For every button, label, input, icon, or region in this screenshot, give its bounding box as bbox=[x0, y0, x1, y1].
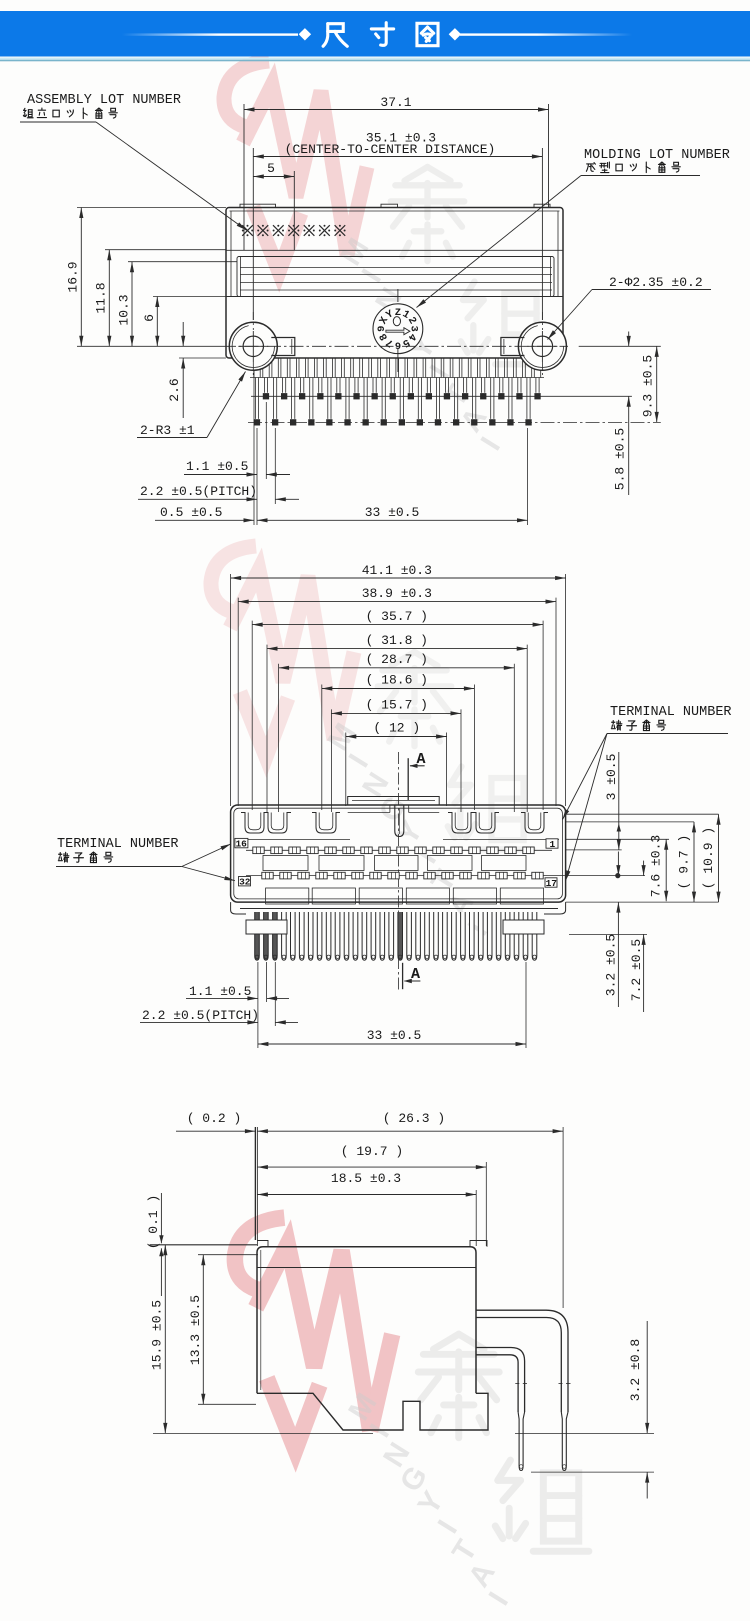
centerline horizontal (dash-dot) bbox=[222, 345, 568, 347]
svg-text:17: 17 bbox=[546, 878, 558, 889]
lower terminal row line extended w/ dot bbox=[246, 875, 645, 877]
mid cavity rects bbox=[263, 856, 308, 871]
body outline front bbox=[231, 805, 566, 902]
3.2 dim bbox=[153, 1432, 373, 1434]
centerline vertical d2 bbox=[398, 752, 400, 992]
pad row lines bbox=[251, 395, 632, 397]
left wall + flange line bbox=[254, 1127, 256, 1240]
svg-text:( 15.7 ): ( 15.7 ) bbox=[366, 698, 428, 713]
svg-text:1.1 ±0.5: 1.1 ±0.5 bbox=[186, 459, 248, 474]
svg-text:18.5 ±0.3: 18.5 ±0.3 bbox=[331, 1171, 401, 1186]
dim (10.9) bbox=[718, 814, 720, 902]
upper pin bbox=[476, 1310, 568, 1412]
svg-text:33 ±0.5: 33 ±0.5 bbox=[367, 1028, 422, 1043]
svg-text:5: 5 bbox=[267, 161, 275, 176]
lower pin bbox=[476, 1348, 525, 1413]
svg-text:( 31.8 ): ( 31.8 ) bbox=[366, 633, 428, 648]
svg-text:37.1: 37.1 bbox=[380, 95, 411, 110]
header blue banner bbox=[0, 11, 750, 57]
left vertical dims 16.9/11.8/10.3/6 bbox=[77, 207, 226, 209]
svg-text:2.6: 2.6 bbox=[167, 378, 182, 401]
short pins bbox=[264, 378, 267, 393]
svg-text:41.1 ±0.3: 41.1 ±0.3 bbox=[362, 563, 432, 578]
svg-text:7.2 ±0.5: 7.2 ±0.5 bbox=[629, 939, 644, 1001]
svg-text:( 18.6 ): ( 18.6 ) bbox=[366, 673, 428, 688]
slider band bbox=[226, 249, 563, 251]
assembly lot marks bbox=[242, 225, 253, 236]
terminal rows bbox=[246, 849, 552, 851]
svg-text:3.2 ±0.5: 3.2 ±0.5 bbox=[604, 934, 619, 996]
svg-text:2.2 ±0.5(PITCH): 2.2 ±0.5(PITCH) bbox=[142, 1008, 259, 1023]
right side dims d2 bbox=[566, 813, 719, 815]
bottom dims d2 bbox=[257, 962, 259, 1048]
dim (9.7) bbox=[693, 822, 695, 902]
top tabs bbox=[240, 204, 276, 207]
svg-text:3.2 ±0.8: 3.2 ±0.8 bbox=[628, 1339, 643, 1401]
svg-text:( 0.2 ): ( 0.2 ) bbox=[187, 1111, 242, 1126]
svg-text:16.9: 16.9 bbox=[66, 261, 81, 292]
dim 15.9 bbox=[164, 1245, 166, 1434]
bottom flange/feet bbox=[240, 908, 558, 910]
svg-text:15.9 ±0.5: 15.9 ±0.5 bbox=[150, 1300, 165, 1370]
svg-text:TERMINAL NUMBER: TERMINAL NUMBER bbox=[610, 705, 732, 720]
ear right bbox=[501, 338, 525, 356]
section mark A top bbox=[407, 758, 409, 800]
pins comb (side view) bbox=[254, 358, 260, 378]
header title 尺寸图 bbox=[323, 23, 438, 47]
long pins bbox=[255, 378, 258, 419]
svg-text:ASSEMBLY LOT NUMBER: ASSEMBLY LOT NUMBER bbox=[27, 93, 181, 108]
bottom profile bbox=[257, 1393, 488, 1430]
svg-text:( 19.7 ): ( 19.7 ) bbox=[341, 1144, 403, 1159]
svg-text:2.2 ±0.5(PITCH): 2.2 ±0.5(PITCH) bbox=[140, 484, 257, 499]
dim 9.3 bbox=[656, 346, 658, 422]
terminal number labels bbox=[235, 838, 248, 847]
dim 2.6 bbox=[182, 322, 184, 346]
svg-text:1: 1 bbox=[549, 839, 555, 850]
date wheel bbox=[373, 304, 423, 354]
svg-text:2-Φ2.35 ±0.2: 2-Φ2.35 ±0.2 bbox=[609, 275, 703, 290]
svg-text:13.3 ±0.5: 13.3 ±0.5 bbox=[188, 1295, 203, 1365]
svg-text:38.9 ±0.3: 38.9 ±0.3 bbox=[362, 586, 432, 601]
pins front view bbox=[255, 912, 260, 960]
body outline side bbox=[257, 1247, 476, 1394]
svg-text:7.6 ±0.3: 7.6 ±0.3 bbox=[649, 835, 664, 897]
svg-text:( 10.9 ): ( 10.9 ) bbox=[701, 827, 716, 889]
slot ledge line bbox=[237, 839, 350, 841]
svg-text:1.1 ±0.5: 1.1 ±0.5 bbox=[189, 984, 251, 999]
center raised block + key bbox=[348, 797, 440, 806]
svg-text:A: A bbox=[411, 966, 420, 983]
svg-text:( 26.3 ): ( 26.3 ) bbox=[383, 1111, 445, 1126]
bottom dims of drawing 1 bbox=[253, 371, 255, 525]
svg-text:9.3 ±0.5: 9.3 ±0.5 bbox=[641, 355, 656, 417]
svg-text:( 35.7 ): ( 35.7 ) bbox=[366, 609, 428, 624]
svg-text:( 28.7 ): ( 28.7 ) bbox=[366, 652, 428, 667]
dim (0.1) bbox=[160, 1193, 162, 1243]
svg-text:10.3: 10.3 bbox=[117, 294, 132, 325]
svg-text:11.8: 11.8 bbox=[94, 282, 109, 313]
svg-text:6: 6 bbox=[142, 314, 157, 322]
svg-text:( 9.7 ): ( 9.7 ) bbox=[677, 835, 692, 890]
top slots bbox=[241, 813, 268, 834]
section mark A bottom bbox=[402, 963, 404, 989]
svg-text:MOLDING LOT NUMBER: MOLDING LOT NUMBER bbox=[584, 148, 730, 163]
svg-text:(CENTER-TO-CENTER DISTANCE): (CENTER-TO-CENTER DISTANCE) bbox=[285, 142, 496, 157]
dim 3.2 +-0.5 bbox=[617, 852, 619, 876]
svg-text:32: 32 bbox=[239, 877, 251, 888]
dim 7.6 bbox=[665, 839, 667, 901]
watermark red logo + gray text (3 instances) bbox=[224, 61, 367, 272]
dim 5.8 bbox=[628, 332, 630, 347]
dim 3 +-0.5 bbox=[618, 752, 620, 850]
svg-text:A: A bbox=[416, 751, 425, 768]
svg-text:( 0.1 ): ( 0.1 ) bbox=[146, 1195, 161, 1250]
svg-text:( 12 ): ( 12 ) bbox=[373, 721, 420, 736]
dim 7.2 +-0.5 bbox=[643, 861, 645, 876]
svg-text:3 ±0.5: 3 ±0.5 bbox=[604, 754, 619, 801]
svg-text:16: 16 bbox=[235, 838, 247, 849]
svg-text:5.8 ±0.5: 5.8 ±0.5 bbox=[613, 428, 628, 490]
lower cavity rects bbox=[266, 888, 309, 904]
svg-text:2-R3 ±1: 2-R3 ±1 bbox=[140, 423, 195, 438]
svg-text:0.5 ±0.5: 0.5 ±0.5 bbox=[160, 505, 222, 520]
dim 13.3 bbox=[198, 1254, 258, 1256]
body outline (top section) bbox=[226, 208, 563, 359]
ear left bbox=[271, 338, 295, 356]
svg-text:33 ±0.5: 33 ±0.5 bbox=[365, 505, 420, 520]
svg-text:TERMINAL NUMBER: TERMINAL NUMBER bbox=[57, 837, 179, 852]
